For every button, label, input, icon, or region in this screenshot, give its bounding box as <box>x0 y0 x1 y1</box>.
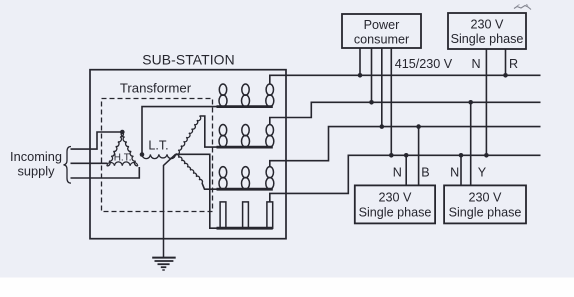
svg-text:Y: Y <box>478 166 487 180</box>
svg-text:230 V: 230 V <box>379 191 413 205</box>
svg-text:Single phase: Single phase <box>449 206 522 220</box>
svg-text:Incoming: Incoming <box>10 149 62 164</box>
svg-text:N: N <box>471 57 480 71</box>
svg-text:R: R <box>509 57 518 71</box>
svg-text:230 V: 230 V <box>471 18 505 32</box>
svg-text:L.T.: L.T. <box>148 139 168 153</box>
svg-text:N: N <box>450 166 459 180</box>
svg-text:H.T.: H.T. <box>114 152 132 163</box>
svg-text:Single phase: Single phase <box>359 206 432 220</box>
svg-text:Single phase: Single phase <box>451 32 524 46</box>
svg-text:Power: Power <box>364 18 400 32</box>
svg-text:supply: supply <box>18 164 56 179</box>
svg-text:SUB-STATION: SUB-STATION <box>142 52 234 68</box>
svg-text:B: B <box>421 166 429 180</box>
svg-text:N: N <box>393 166 402 180</box>
svg-text:415/230 V: 415/230 V <box>395 57 453 71</box>
svg-text:230 V: 230 V <box>469 191 503 205</box>
svg-text:consumer: consumer <box>354 33 409 47</box>
svg-text:Transformer: Transformer <box>120 81 192 96</box>
